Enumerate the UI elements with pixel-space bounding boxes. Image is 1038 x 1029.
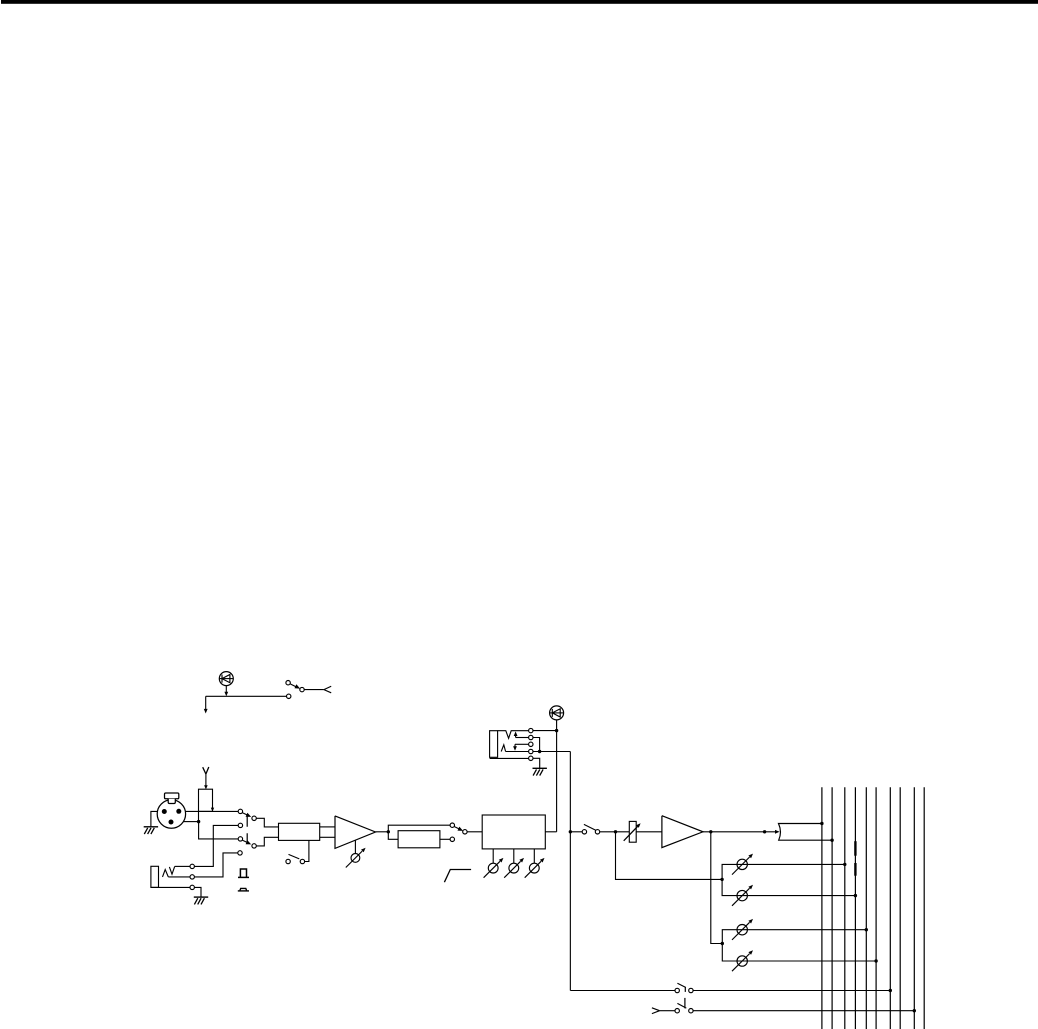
switch S5 left contact <box>582 830 586 834</box>
switch S4 bottom contact <box>450 837 454 841</box>
pan pot VR6 <box>779 824 833 841</box>
S2 pole-a mic contact <box>238 809 242 813</box>
fader VR5 body <box>629 821 636 842</box>
aux2 pot VR8 <box>732 885 753 906</box>
J2 sleeve line <box>490 757 529 759</box>
node: post amp junction <box>709 830 712 833</box>
resistor R2 (pad) block <box>398 831 440 848</box>
J2 tip contact terminal <box>529 728 533 732</box>
EQ high pot VR2 <box>484 858 504 878</box>
EQ block U3 <box>482 815 545 849</box>
wire: pad path (down) <box>388 832 398 840</box>
J2 tip spring contact (V) <box>498 731 529 739</box>
switch S3 lever <box>289 854 300 859</box>
S2 pole-b line contact <box>238 851 242 855</box>
bus line 10 <box>923 787 925 1029</box>
J2 ring contact terminal <box>529 749 533 753</box>
wire: phantom feed with arrow <box>204 774 208 789</box>
node: aux4 to bus6 <box>874 959 877 962</box>
wire: S5 to fader <box>600 831 630 833</box>
line jack J3 body <box>151 866 159 887</box>
arrow: into pan pot <box>775 830 780 834</box>
bus line 8 <box>899 787 901 1029</box>
EQ low pot VR4 <box>525 858 545 878</box>
node: aux2 to bus4 <box>854 894 857 897</box>
preamp U1 block <box>279 823 320 840</box>
switch S4 top contact <box>450 823 454 827</box>
EQ mid pot VR3 stem <box>513 849 515 863</box>
node: pan to L bus <box>820 822 823 825</box>
wire: R2 to contact <box>440 838 450 840</box>
wire: D2 stem <box>556 720 558 731</box>
J3 tip terminal <box>190 864 194 868</box>
wire: tip normal with up arrow <box>514 731 529 737</box>
wire: aux2 feed <box>722 879 855 895</box>
switch S4 lever with arrow <box>454 827 463 831</box>
arrow: R1 to hot line <box>211 808 214 812</box>
fader VR5 arrow <box>624 823 641 841</box>
wire: ring line from caret to terminal <box>506 751 529 753</box>
switch S4 common <box>463 830 467 834</box>
switch S1 lever with arrow <box>290 684 300 689</box>
S2 pole-b lever with arrow <box>243 840 252 844</box>
wire: EQ output to insert send <box>545 831 556 833</box>
wire: U2 output <box>376 831 389 833</box>
wire: U4 output <box>703 831 776 833</box>
S2 gang link (dashed) <box>246 816 248 843</box>
wire: tip line <box>175 865 190 867</box>
node: aux3 to bus5 <box>865 928 868 931</box>
switch S7 left contact <box>675 1009 679 1013</box>
J2 sleeve terminal <box>529 756 533 760</box>
node: pan feed junction <box>763 830 766 833</box>
EQ high pot VR2 stem <box>492 849 494 863</box>
wire: cold jog to switch contact <box>199 822 239 839</box>
EQ low pot VR4 stem <box>533 849 535 863</box>
J3 tip spring (V) <box>169 866 174 874</box>
node: insert return junction <box>569 830 572 833</box>
op-amp U2 (head amp) <box>335 816 376 849</box>
switch S6 right contact <box>689 988 693 992</box>
switch S7 gang link lower <box>684 998 686 1008</box>
connector prong (to lamp) <box>324 686 331 693</box>
switch S5 right contact <box>595 830 599 834</box>
ground (line input) <box>194 897 208 904</box>
pad button icon (released) <box>238 869 249 877</box>
wire: prong to switch S7 <box>660 1010 675 1012</box>
wire: insert return vertical <box>569 752 571 991</box>
J1 latch tab <box>165 793 179 804</box>
wire: U1 to U2 lower <box>320 836 335 838</box>
S2 pole-b common <box>252 844 256 848</box>
XLR connector J1 shell <box>157 800 185 828</box>
J2 tip normal contact <box>529 735 533 739</box>
S2 pole-a lever with arrow <box>243 813 252 817</box>
wire: fader to U4 <box>636 831 662 833</box>
wire: post-amp aux drop <box>711 832 723 944</box>
wire: left drop with down arrow <box>204 696 208 713</box>
wire: U1 to U2 upper <box>320 826 335 828</box>
bus line 7 <box>889 787 891 1029</box>
wire: tip to mic/line contact <box>194 825 238 866</box>
wire: return drop to switch S6 <box>570 990 675 992</box>
aux3 pot VR9 <box>732 919 753 940</box>
LED D1 (peak indicator) <box>219 672 233 686</box>
node: insert send junction <box>555 729 558 732</box>
low-cut filter icon <box>444 870 471 883</box>
wire: S1 pole to connector prong <box>304 689 324 691</box>
switch S3 left contact <box>286 859 290 863</box>
wire: R1 left edge to cold node <box>198 811 200 821</box>
S2 pole-a line contact <box>238 823 242 827</box>
wire: bypass path (top) <box>388 825 450 832</box>
wire: horizontal from node to switch S1 <box>206 695 287 697</box>
ground (insert jack) <box>533 768 547 775</box>
node: U2 output junction <box>387 830 390 833</box>
switch S1 upper contact <box>286 681 290 685</box>
switch S7 lever <box>677 1003 686 1008</box>
gain pot VR1 <box>346 848 366 868</box>
wire: shell to ground <box>151 811 157 826</box>
wire: ring to mic/line contact <box>194 853 237 877</box>
wire: sleeve to ground <box>194 887 201 897</box>
switch S1 pole contact <box>300 687 304 691</box>
node: normal-through junction <box>538 750 541 753</box>
J1 pin 1 (shield) <box>169 820 174 825</box>
node: pan to R bus <box>830 839 833 842</box>
S2 pole-a common <box>252 816 256 820</box>
wire: ring normal with down arrow <box>513 744 529 751</box>
aux1 pot VR7 <box>732 854 753 875</box>
switch S7 right contact <box>689 1009 693 1013</box>
J3 ring terminal <box>190 875 194 879</box>
phantom resistor R1 block <box>199 789 213 811</box>
switch S6 gang link upper <box>684 988 686 992</box>
bus line 4 <box>854 787 856 1029</box>
node: aux1 to bus3 <box>843 863 846 866</box>
wire: insert send vertical (to EQ output) <box>556 731 558 832</box>
LED D2 (insert present) <box>550 706 564 720</box>
bus line 6 <box>875 787 877 1029</box>
J2 ring normal contact <box>529 742 533 746</box>
bus line 9 <box>913 787 915 1029</box>
J2 ring spring contact (caret) <box>501 745 505 752</box>
switch S6 left contact <box>675 988 679 992</box>
header bar <box>1 0 1038 4</box>
wire: sleeve to ground <box>533 758 540 768</box>
aux4 pot VR10 <box>732 950 753 971</box>
wire: aux3 feed <box>722 930 866 944</box>
J1 pin 3 (cold) <box>176 809 181 814</box>
insert jack J2 body <box>490 731 498 758</box>
wire: pre-fader aux drop <box>616 832 723 880</box>
switch S1 fixed contact <box>287 694 291 698</box>
switch S3 right contact <box>300 859 304 863</box>
gain pot VR1 stem <box>354 840 356 853</box>
bus line 3 <box>844 787 846 1029</box>
node: aux3/4 split <box>721 942 724 945</box>
wire: D1 cathode stem with junction arrow <box>224 686 228 697</box>
wire: aux1 feed <box>722 864 845 879</box>
wire: S4 to EQ <box>467 831 482 833</box>
S2 pole-b mic contact <box>238 837 242 841</box>
wire: insert return to vertical bus <box>533 751 570 753</box>
bus line 5 <box>865 787 867 1029</box>
op-amp U4 (channel amp) <box>662 816 703 848</box>
switch S3 (pad) right contact wire <box>305 840 309 861</box>
wire: ring line <box>168 876 190 878</box>
wire: S6 to bus7 <box>693 990 890 992</box>
node: pre-fader aux tap <box>614 830 617 833</box>
J3 sleeve terminal <box>190 885 194 889</box>
J1 pin 2 (hot) <box>162 809 167 814</box>
wire: pin2 to polarity switch <box>186 810 239 812</box>
node: aux1/2 split <box>720 878 723 881</box>
EQ mid pot VR3 <box>504 858 524 878</box>
wire: aux4 feed <box>722 944 876 962</box>
connector prong (from bus feed) <box>652 1008 660 1014</box>
phantom +48V source symbol <box>203 767 209 774</box>
node: to bus7 <box>889 989 892 992</box>
wire: pole-a common to preamp <box>256 818 278 827</box>
switch S6 lever <box>677 983 686 987</box>
wire: pole-b common to preamp <box>256 837 278 846</box>
wire: tip normal jog to ring line <box>533 738 540 752</box>
wire: return to switch S5 <box>570 831 582 833</box>
J3 sleeve line <box>151 886 190 888</box>
node: cold line junction <box>197 820 200 823</box>
wire: S7 to bus9 <box>693 1010 914 1012</box>
wire: tip terminal to send node <box>533 730 557 732</box>
bus line 4 bold segment b <box>854 863 856 876</box>
bus line 4 bold segment a <box>854 841 856 856</box>
node: to bus9 <box>913 1009 916 1012</box>
wire: pin3 to junction <box>183 821 198 823</box>
ground (mic input) <box>144 827 158 834</box>
J3 ring spring (caret) <box>163 870 169 877</box>
switch S5 lever <box>584 824 596 830</box>
bus line 1 <box>821 787 823 1029</box>
pad button icon (pressed) <box>238 888 249 891</box>
bus line 2 <box>831 787 833 1029</box>
